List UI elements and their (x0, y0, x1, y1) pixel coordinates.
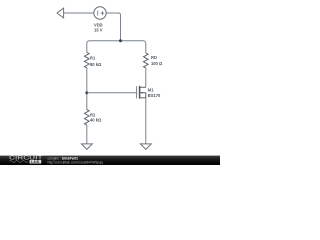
wire R1 to divider node (86, 68, 88, 110)
svg-text:100 Ω: 100 Ω (151, 61, 163, 66)
wire M1 source to ground (145, 98, 147, 144)
label VDD 15 V (94, 22, 103, 32)
M1 drain stub (140, 86, 146, 88)
svg-text:BS170: BS170 (148, 93, 161, 98)
label RD 100 Ohm (151, 55, 163, 66)
junction node divider (gate node) (85, 91, 88, 94)
wire flag to VDD source (64, 12, 94, 14)
svg-text:R1: R1 (90, 55, 96, 60)
resistor R2 (85, 110, 90, 126)
svg-text:M1: M1 (148, 87, 154, 92)
label M1 BS170 (148, 87, 161, 98)
ground (right) (140, 144, 151, 150)
label R2 40 kOhm (90, 112, 102, 122)
svg-text:RD: RD (151, 55, 157, 60)
ground (left) (82, 144, 93, 150)
svg-text:LAB: LAB (31, 160, 39, 164)
svg-text:80 kΩ: 80 kΩ (90, 62, 102, 67)
watermark bar (0, 156, 220, 165)
svg-text:40 kΩ: 40 kΩ (90, 118, 102, 123)
svg-text:15 V: 15 V (94, 27, 103, 32)
wire gate node to M1 gate (87, 92, 137, 94)
top rail wire (87, 41, 146, 53)
transistor M1 (NMOS BS170) (137, 86, 146, 99)
wire RD to M1 drain (145, 68, 147, 88)
voltage source V1 (VDD) (94, 7, 106, 19)
junction node at supply/top rail (119, 39, 122, 42)
resistor R1 (85, 52, 90, 68)
CircuitLab logo (9, 156, 43, 164)
watermark text (48, 156, 104, 164)
resistor RD (144, 53, 149, 68)
wire R2 to ground (86, 125, 88, 144)
net flag arrow (left terminal) (57, 8, 64, 18)
wire VDD source to top rail (106, 13, 120, 41)
svg-text:http://circuitlab.com/c/uab647: http://circuitlab.com/c/uab647kf9pqa (48, 160, 104, 164)
label R1 80 kOhm (90, 55, 102, 66)
